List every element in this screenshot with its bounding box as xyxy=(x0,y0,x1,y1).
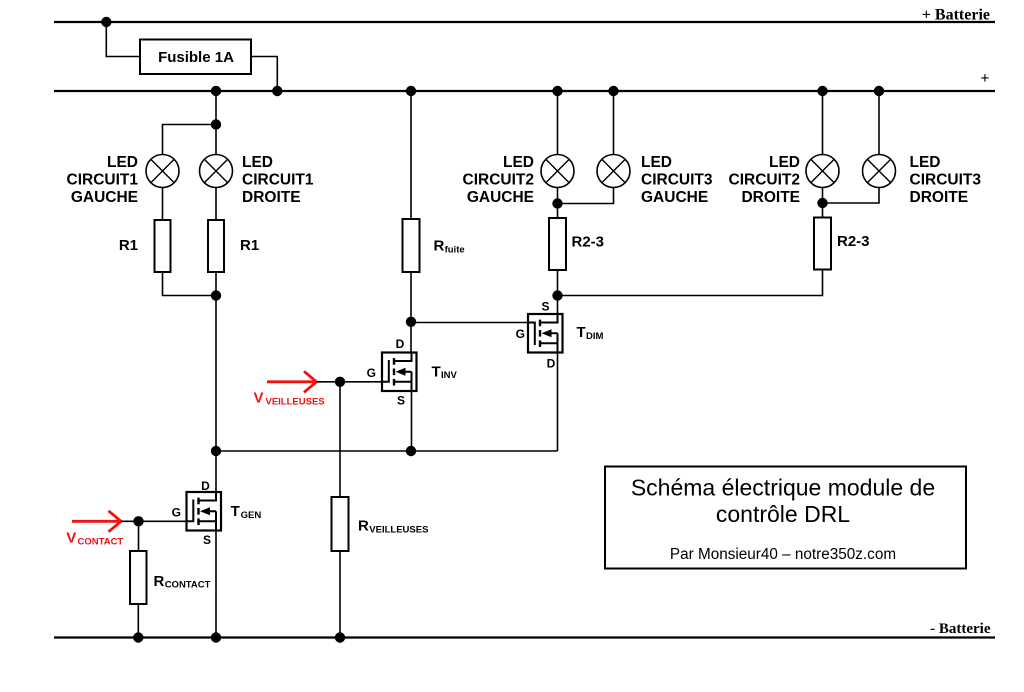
svg-text:D: D xyxy=(396,337,405,351)
svg-text:G: G xyxy=(172,506,181,520)
svg-text:CIRCUIT1: CIRCUIT1 xyxy=(67,172,139,189)
wire lamp1 to R1a xyxy=(162,188,164,221)
svg-text:+: + xyxy=(980,70,989,87)
wire fuse to + rail xyxy=(251,57,277,92)
wire node to R_CONTACT xyxy=(138,521,140,551)
arrow V_VEILLEUSES xyxy=(267,371,317,392)
resistor Rfuite xyxy=(403,219,420,272)
wire lamp2 to R1b xyxy=(215,188,217,221)
svg-text:LED: LED xyxy=(107,154,138,171)
node cluster3 top right xyxy=(874,86,884,96)
svg-text:DROITE: DROITE xyxy=(242,189,301,206)
svg-text:G: G xyxy=(367,366,376,380)
lamp LED CIRCUIT1 DROITE xyxy=(200,155,233,188)
wire T_INV source down xyxy=(411,391,413,451)
svg-text:+ Batterie: + Batterie xyxy=(922,7,990,24)
wire T_GEN source down xyxy=(215,531,217,638)
svg-text:R: R xyxy=(154,573,165,590)
transistor T_DIM xyxy=(528,314,563,353)
svg-text:T: T xyxy=(432,363,441,380)
node cluster1 top xyxy=(211,86,221,96)
svg-text:VEILLEUSES: VEILLEUSES xyxy=(266,396,325,407)
node contact xyxy=(133,516,143,526)
svg-text:D: D xyxy=(201,479,210,493)
wire lamp C2D to junction xyxy=(822,188,824,204)
svg-text:DROITE: DROITE xyxy=(910,189,969,206)
wire branch to right lamp xyxy=(215,125,217,155)
svg-text:S: S xyxy=(203,533,211,547)
wire rail to R_fuite xyxy=(410,91,412,219)
svg-text:LED: LED xyxy=(910,154,941,171)
junction fuse output xyxy=(272,86,282,96)
svg-text:S: S xyxy=(541,300,549,314)
node R_fuite top xyxy=(406,86,416,96)
wire R1b bottom to junction xyxy=(215,272,217,296)
svg-text:T: T xyxy=(231,503,240,520)
svg-text:Fusible 1A: Fusible 1A xyxy=(158,49,234,66)
arrow V_CONTACT xyxy=(72,511,121,532)
wire T_DIM drain down xyxy=(557,353,559,452)
title box xyxy=(605,467,966,569)
fuse F1 Fusible 1A xyxy=(140,40,251,75)
node cluster3 lamps xyxy=(817,198,827,208)
transistor T_INV xyxy=(382,353,417,392)
svg-text:contrôle DRL: contrôle DRL xyxy=(716,501,850,527)
svg-text:CIRCUIT2: CIRCUIT2 xyxy=(729,172,800,189)
svg-text:R1: R1 xyxy=(240,237,259,254)
wire T_DIM source xyxy=(557,296,559,315)
svg-text:GAUCHE: GAUCHE xyxy=(641,189,708,206)
node cluster1 bottom xyxy=(211,290,221,300)
wire rail to lamp C3G xyxy=(613,91,615,155)
wire rail to lamp C2G xyxy=(557,91,559,155)
svg-text:VEILLEUSES: VEILLEUSES xyxy=(369,524,428,535)
wire to T_DIM gate xyxy=(411,322,528,324)
node gate branch xyxy=(406,317,416,327)
svg-text:LED: LED xyxy=(641,154,672,171)
svg-text:Par Monsieur40 – notre350z.com: Par Monsieur40 – notre350z.com xyxy=(670,546,896,563)
svg-text:CIRCUIT3: CIRCUIT3 xyxy=(641,172,713,189)
svg-text:D: D xyxy=(547,357,556,371)
resistor R2-3 (left) xyxy=(549,218,566,270)
node cluster2 top left xyxy=(552,86,562,96)
node ground R_CONTACT xyxy=(133,632,143,642)
svg-text:INV: INV xyxy=(441,370,458,381)
svg-text:G: G xyxy=(516,327,525,341)
svg-text:R2-3: R2-3 xyxy=(837,233,870,250)
svg-text:- Batterie: - Batterie xyxy=(930,621,991,637)
svg-text:LED: LED xyxy=(769,154,800,171)
wire cluster1 down to T_GEN drain xyxy=(215,296,217,493)
wire node to R_VEILLEUSES xyxy=(339,382,341,497)
wire branch to left lamp xyxy=(163,125,217,155)
svg-text:CIRCUIT3: CIRCUIT3 xyxy=(910,172,982,189)
node cluster2 top right xyxy=(608,86,618,96)
resistor R1 (right) xyxy=(208,220,224,272)
wire rail to cluster1 xyxy=(215,91,217,125)
node veilleuses xyxy=(335,377,345,387)
svg-text:T: T xyxy=(577,324,586,341)
wire R1a bottom to junction xyxy=(163,272,217,296)
node ground R_VEILLEUSES xyxy=(335,632,345,642)
svg-text:GAUCHE: GAUCHE xyxy=(467,189,534,206)
svg-text:CONTACT: CONTACT xyxy=(78,536,124,547)
node bus left xyxy=(211,446,221,456)
svg-text:CIRCUIT2: CIRCUIT2 xyxy=(463,172,534,189)
lamp LED CIRCUIT2 DROITE xyxy=(806,155,839,188)
wire R_VEILLEUSES to ground rail xyxy=(339,551,341,638)
transistor T_GEN xyxy=(187,492,222,531)
wire rail to lamp C2D xyxy=(822,91,824,155)
wire lamp C2G to junction xyxy=(557,188,559,204)
svg-text:LED: LED xyxy=(503,154,534,171)
lamp LED CIRCUIT2 GAUCHE xyxy=(541,155,574,188)
wire R2-3 to T_DIM source node xyxy=(557,270,559,296)
bottom - Batterie rail xyxy=(54,636,995,638)
wire lamp C3D to junction xyxy=(823,188,880,204)
svg-text:GEN: GEN xyxy=(241,510,262,521)
wire top rail to fuse xyxy=(106,22,140,57)
wire R2-3 right to T_DIM source node xyxy=(558,270,823,296)
lamp LED CIRCUIT1 GAUCHE xyxy=(146,155,179,188)
node T_DIM source xyxy=(552,290,562,300)
resistor R_VEILLEUSES xyxy=(332,497,349,551)
wire junction to R2-3 xyxy=(557,204,559,219)
wire rail to lamp C3D xyxy=(878,91,880,155)
wire lamp C3G to junction xyxy=(558,188,614,204)
resistor R2-3 (right) xyxy=(814,218,831,270)
node cluster2 lamps xyxy=(552,198,562,208)
svg-text:Schéma électrique module de: Schéma électrique module de xyxy=(631,475,935,501)
svg-text:CIRCUIT1: CIRCUIT1 xyxy=(242,172,314,189)
svg-text:fuite: fuite xyxy=(445,245,465,256)
node bus middle xyxy=(406,446,416,456)
+ distribution rail xyxy=(54,90,995,92)
svg-text:V: V xyxy=(254,390,264,407)
svg-text:V: V xyxy=(66,530,76,547)
lamp LED CIRCUIT3 DROITE xyxy=(863,155,896,188)
svg-text:DROITE: DROITE xyxy=(741,189,800,206)
wire junction to R2-3 right xyxy=(822,203,824,218)
svg-text:GAUCHE: GAUCHE xyxy=(71,189,138,206)
node ground T_GEN xyxy=(211,632,221,642)
node cluster3 top left xyxy=(817,86,827,96)
svg-text:R2-3: R2-3 xyxy=(572,234,605,251)
svg-text:CONTACT: CONTACT xyxy=(165,580,211,591)
svg-text:R: R xyxy=(358,518,369,535)
wire R_fuite bottom to T_INV drain xyxy=(410,272,412,353)
svg-text:DIM: DIM xyxy=(586,331,604,342)
wire arrow to T_GEN gate xyxy=(121,520,187,522)
svg-text:S: S xyxy=(397,394,405,408)
node cluster1 branch xyxy=(211,119,221,129)
wire arrow to T_INV gate xyxy=(317,381,383,383)
resistor R1 (left) xyxy=(155,220,171,272)
svg-text:LED: LED xyxy=(242,154,273,171)
top + Batterie rail xyxy=(54,21,995,23)
wire R_CONTACT to ground rail xyxy=(137,604,139,638)
lamp LED CIRCUIT3 GAUCHE xyxy=(597,155,630,188)
svg-text:R1: R1 xyxy=(119,237,138,254)
resistor R_CONTACT xyxy=(130,551,147,604)
wire bus at y451 xyxy=(216,450,558,452)
svg-text:R: R xyxy=(434,238,445,255)
node on top rail xyxy=(101,17,111,27)
